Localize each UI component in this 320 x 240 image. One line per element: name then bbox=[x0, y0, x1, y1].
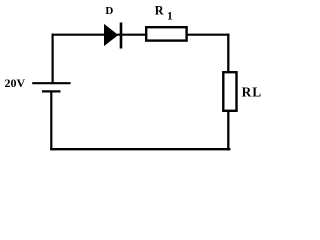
svg-text:R: R bbox=[155, 3, 164, 17]
battery V1 positive plate (long) bbox=[32, 82, 70, 84]
wire right vertical upper (corner to RL) bbox=[227, 34, 229, 73]
wire left vertical upper (corner to battery +) bbox=[51, 34, 53, 83]
svg-text:20V: 20V bbox=[5, 76, 26, 90]
wire right vertical lower (RL to bottom) bbox=[227, 111, 229, 151]
svg-text:D: D bbox=[105, 5, 113, 17]
resistor R1 box bbox=[146, 27, 186, 40]
wire diode-to-R1 segment bbox=[117, 34, 147, 36]
svg-text:RL: RL bbox=[242, 85, 263, 100]
diode D triangle (anode) bbox=[104, 24, 118, 46]
wire R1-to-corner segment bbox=[186, 34, 229, 36]
svg-text:1: 1 bbox=[167, 10, 173, 22]
resistor RL box bbox=[223, 72, 236, 111]
wire bottom horizontal bbox=[50, 148, 230, 150]
wire left vertical lower (battery - to bottom) bbox=[50, 92, 52, 151]
wire top-left horizontal segment bbox=[52, 34, 105, 36]
battery V1 negative plate (short) bbox=[42, 90, 61, 92]
diode D cathode bar bbox=[120, 23, 123, 49]
